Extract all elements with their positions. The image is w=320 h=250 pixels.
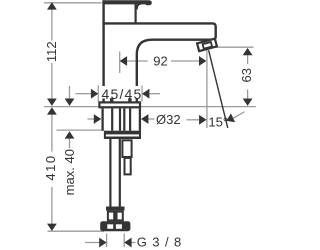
svg-text:92: 92	[153, 54, 167, 69]
svg-text:15°: 15°	[208, 115, 228, 130]
svg-text:G3/8: G3/8	[137, 235, 187, 250]
svg-text:45/45: 45/45	[102, 86, 143, 102]
svg-text:112: 112	[44, 41, 59, 62]
svg-text:63: 63	[239, 68, 254, 82]
svg-text:Ø32: Ø32	[156, 112, 181, 127]
svg-text:410: 410	[43, 154, 58, 180]
svg-text:max. 40: max. 40	[62, 149, 77, 195]
